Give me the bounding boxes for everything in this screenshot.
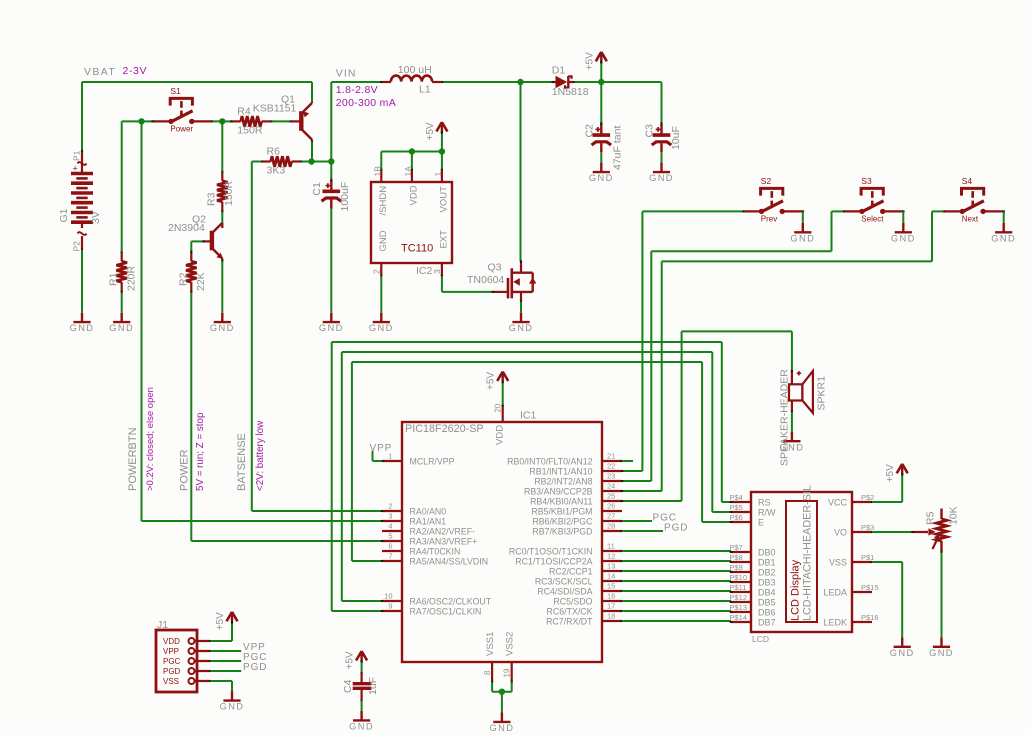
ground GND battery: [73, 321, 90, 323]
svg-text:C4: C4: [342, 679, 354, 693]
svg-text:2-3V: 2-3V: [123, 65, 148, 77]
IC1 pin 16 RC5/SDO: [602, 600, 622, 602]
svg-text:GND: GND: [509, 323, 534, 333]
wire VCC to +5V: [872, 501, 902, 503]
svg-text:>0.2V: closed; else open: >0.2V: closed; else open: [145, 387, 156, 491]
svg-text:2: 2: [371, 269, 381, 274]
LCD pin P$7 DB0: [731, 551, 751, 553]
svg-text:S2: S2: [761, 176, 772, 186]
svg-text:P2: P2: [72, 241, 82, 252]
svg-text:5: 5: [388, 531, 392, 540]
svg-text:200-300 mA: 200-300 mA: [336, 97, 396, 109]
svg-text:TC110: TC110: [401, 243, 433, 255]
svg-text:GND: GND: [109, 323, 134, 333]
junction node VSS: [499, 689, 505, 695]
svg-text:11: 11: [607, 541, 615, 550]
svg-text:150R: 150R: [223, 180, 235, 206]
svg-text:L1: L1: [419, 84, 431, 96]
svg-text:VPP: VPP: [163, 647, 179, 656]
IC1 pin 27 RB6/KBI2/PGC: [602, 520, 622, 522]
wire VSS to GND: [501, 692, 503, 713]
IC1 pin 10 RA6/OSC2/CLKOUT: [382, 600, 402, 602]
transistor Q2 2N3904: [210, 231, 214, 251]
svg-text:R6: R6: [267, 146, 281, 158]
svg-text:22K: 22K: [195, 272, 207, 291]
junction node 1A: [409, 148, 415, 154]
svg-text:VPP: VPP: [370, 443, 393, 454]
LCD pin P$6 E: [731, 521, 751, 523]
svg-text:15: 15: [607, 581, 615, 590]
svg-text:RC6/TX/CK: RC6/TX/CK: [547, 607, 593, 617]
wire RA6-RW bus: [342, 600, 382, 602]
switch S2 Prev: [761, 188, 783, 195]
svg-text:1uF: 1uF: [367, 677, 379, 695]
IC1 pin 2 RA0/AN0: [382, 510, 402, 512]
svg-text:220R: 220R: [126, 265, 138, 291]
ground GND J1: [223, 699, 240, 701]
svg-text:RC5/SDO: RC5/SDO: [553, 597, 592, 607]
resistor R6: [261, 160, 270, 162]
wire J1 PGC: [210, 660, 241, 662]
svg-text:S1: S1: [170, 86, 181, 96]
inductor L1 100uH: [381, 81, 391, 83]
ground GND C2: [593, 171, 610, 173]
ground GND LCD VSS: [894, 646, 911, 648]
svg-text:P$16: P$16: [861, 613, 879, 622]
svg-text:RC2/CCP1: RC2/CCP1: [549, 567, 593, 577]
IC2 pin 3 stub: [441, 263, 443, 276]
svg-text:BATSENSE: BATSENSE: [236, 433, 248, 491]
IC2 TC110 box: [371, 182, 452, 263]
svg-text:1.8-2.8V: 1.8-2.8V: [336, 84, 378, 96]
LCD pin P$11 DB4: [731, 591, 751, 593]
IC1 pin 4 RA2/AN2/VREF-: [382, 530, 402, 532]
LCD pin P$4 RS: [731, 501, 751, 503]
wire Q2 emitter to GND: [221, 261, 223, 312]
svg-text:P$12: P$12: [730, 593, 748, 602]
svg-text:PIC18F2620-SP: PIC18F2620-SP: [405, 423, 484, 435]
svg-text:RB4/KBI0/AN11: RB4/KBI0/AN11: [530, 497, 593, 507]
svg-text:2N3904: 2N3904: [168, 222, 205, 234]
wires RC0-RC7 to LCD: [622, 550, 731, 552]
svg-text:C3: C3: [644, 124, 656, 138]
svg-text:RB3/AN9/CCP2B: RB3/AN9/CCP2B: [524, 487, 593, 497]
wire speaker to GND: [791, 412, 793, 432]
svg-text:28: 28: [607, 521, 615, 530]
wire L1 to D1: [443, 81, 553, 83]
svg-text:PGC: PGC: [163, 657, 181, 666]
svg-text:RC1/T1OSI/CCP2A: RC1/T1OSI/CCP2A: [515, 557, 592, 567]
svg-text:VSS: VSS: [163, 677, 179, 686]
ground GND C1: [323, 321, 340, 323]
svg-text:Prev: Prev: [761, 215, 777, 224]
IC1 pin 6 RA4/T0CKIN: [382, 550, 402, 552]
ground GND IC2: [373, 321, 390, 323]
LCD display box: [751, 492, 852, 632]
wire 5V to C3: [601, 81, 661, 83]
junction node C1-VIN: [328, 158, 334, 164]
svg-text:RA4/T0CKIN: RA4/T0CKIN: [410, 547, 461, 557]
svg-text:18: 18: [607, 611, 615, 620]
svg-text:C2: C2: [583, 124, 595, 138]
svg-text:P$7: P$7: [730, 543, 743, 552]
ground GND R1: [113, 321, 130, 323]
wire D1 to +5V node: [575, 81, 602, 83]
switch S1 Power: [170, 98, 192, 105]
svg-text:P$1: P$1: [861, 553, 874, 562]
wire J1 VSS to GND: [210, 680, 232, 682]
wire S4 to GND: [1003, 211, 1005, 222]
wire R1 top to switch net: [121, 121, 123, 252]
svg-text:RB6/KBI2/PGC: RB6/KBI2/PGC: [532, 517, 593, 527]
wire TC110 top rail: [380, 152, 382, 170]
LCD inner box: [786, 501, 817, 622]
wire R6 right to VIN node: [302, 161, 332, 163]
wire R5 to GND: [941, 553, 943, 638]
svg-text:25: 25: [607, 491, 615, 500]
svg-text:+5V: +5V: [584, 52, 595, 70]
svg-text:GND: GND: [890, 648, 915, 658]
connector J1 box: [156, 630, 197, 692]
speaker header SPKR1: [791, 331, 793, 371]
svg-text:R2: R2: [177, 272, 189, 286]
svg-text:24: 24: [607, 481, 615, 490]
svg-text:23: 23: [607, 471, 615, 480]
wire C4 to GND: [361, 701, 363, 711]
capacitor C2 47uF: [600, 82, 602, 124]
wire RA7-RS bus: [332, 610, 382, 612]
svg-text:150R: 150R: [237, 124, 263, 136]
LCD pin P$15 LEDA: [852, 591, 872, 593]
svg-text:RA1/AN1: RA1/AN1: [410, 517, 447, 527]
wire POWER to pin5: [191, 540, 382, 542]
svg-text:3: 3: [432, 269, 442, 274]
wire S2 left net: [642, 210, 742, 212]
svg-text:PGD: PGD: [664, 523, 688, 534]
svg-text:21: 21: [607, 451, 615, 460]
ground GND Q3: [512, 321, 529, 323]
svg-text:P$10: P$10: [730, 573, 748, 582]
junction node Q1-R6: [308, 158, 314, 164]
svg-text:1: 1: [433, 172, 443, 177]
svg-text:RA2/AN2/VREF-: RA2/AN2/VREF-: [410, 527, 476, 537]
svg-text:RA0/AN0: RA0/AN0: [410, 507, 447, 517]
svg-text:19: 19: [503, 668, 512, 677]
svg-text:Select: Select: [861, 215, 884, 224]
svg-text:100 uH: 100 uH: [398, 64, 432, 76]
wire Q2 base to R2: [191, 240, 203, 242]
wire S3 left net: [832, 210, 844, 212]
svg-text:RB5/KBI1/PGM: RB5/KBI1/PGM: [531, 507, 592, 517]
svg-text:LCD: LCD: [752, 634, 769, 644]
LCD pin P$1 VSS: [852, 561, 872, 563]
supply +5V VDD: [502, 382, 504, 405]
svg-text:GND: GND: [210, 323, 235, 333]
svg-text:P$13: P$13: [730, 603, 748, 612]
IC1 pin 7 RA5/AN4/SS/LVDIN: [382, 560, 402, 562]
wire pin27 PGC: [622, 520, 652, 522]
IC1 pin 12 RC1/T1OSI/CCP2A: [602, 560, 622, 562]
svg-text:RC4/SDI/SDA: RC4/SDI/SDA: [537, 587, 592, 597]
svg-text:GND: GND: [220, 702, 245, 712]
svg-text:RC7/RX/DT: RC7/RX/DT: [546, 617, 593, 627]
wire net to pin25: [622, 500, 682, 502]
switch S4 Next: [962, 188, 984, 195]
capacitor C3 10uF: [661, 82, 663, 124]
junction node pin1: [439, 148, 445, 154]
wire Q3 source to GND: [520, 302, 522, 313]
svg-text:4: 4: [388, 521, 392, 530]
IC2 pin 2 stub: [380, 263, 382, 276]
svg-text:VIN: VIN: [336, 67, 357, 79]
svg-text:J1: J1: [157, 619, 168, 631]
svg-text:DB6: DB6: [758, 607, 776, 617]
svg-text:+5V: +5V: [885, 464, 896, 482]
svg-text:RC3/SCK/SCL: RC3/SCK/SCL: [535, 577, 593, 587]
wire junction to R3: [221, 121, 223, 171]
svg-text:P$11: P$11: [730, 583, 747, 592]
svg-text:LCD Display: LCD Display: [790, 559, 802, 621]
IC1 pin 1 MCLR/VPP: [382, 460, 402, 462]
svg-text:P$5: P$5: [730, 503, 743, 512]
svg-text:GND: GND: [649, 173, 674, 183]
svg-text:RB1/INT1/AN10: RB1/INT1/AN10: [529, 467, 592, 477]
wire pin28 PGD: [622, 530, 663, 532]
svg-text:DB2: DB2: [758, 567, 776, 577]
svg-text:IC1: IC1: [520, 409, 537, 421]
svg-text:2: 2: [388, 501, 392, 510]
transistor Q1 KSB1151: [299, 111, 303, 131]
svg-text:C1: C1: [311, 182, 323, 196]
svg-text:+5V: +5V: [486, 372, 497, 390]
svg-text:P$9: P$9: [730, 563, 743, 572]
IC2 pin 1 stub: [441, 169, 443, 182]
svg-text:DB3: DB3: [758, 577, 776, 587]
IC1 pin 18 RC7/RX/DT: [602, 620, 622, 622]
resistor R1: [121, 252, 123, 261]
svg-text:GND: GND: [70, 323, 95, 333]
svg-text:RB7/KBI3/PGD: RB7/KBI3/PGD: [532, 527, 592, 537]
svg-text:TN0604: TN0604: [467, 274, 505, 286]
wire VO to R5: [872, 531, 913, 533]
IC1 pin 22 RB1/INT1/AN10: [602, 470, 622, 472]
svg-text:VSS: VSS: [829, 557, 847, 567]
IC1 pin 17 RC6/TX/CK: [602, 610, 622, 612]
wire Q1 collector to VIN node: [311, 142, 313, 162]
svg-text:9: 9: [388, 601, 392, 610]
svg-text:DB0: DB0: [758, 547, 776, 557]
svg-text:P$8: P$8: [730, 553, 743, 562]
svg-text:P$4: P$4: [730, 493, 743, 502]
svg-text:R3: R3: [205, 192, 217, 206]
svg-text:GND: GND: [991, 233, 1016, 243]
supply +5V LCD: [901, 464, 903, 475]
svg-text:DB4: DB4: [758, 587, 776, 597]
IC1 pin 24 RB3/AN9/CCP2B: [602, 490, 622, 492]
svg-text:G1: G1: [58, 208, 70, 222]
svg-text:Next: Next: [962, 215, 979, 224]
ground GND S4: [995, 231, 1012, 233]
svg-text:12: 12: [607, 551, 615, 560]
svg-text:S4: S4: [962, 176, 973, 186]
svg-text:VDD: VDD: [163, 637, 180, 646]
svg-text:RA7/OSC1/CLKIN: RA7/OSC1/CLKIN: [410, 607, 482, 617]
svg-text:RA6/OSC2/CLKOUT: RA6/OSC2/CLKOUT: [410, 597, 492, 607]
svg-text:EXT: EXT: [438, 230, 449, 249]
ground GND C3: [653, 171, 670, 173]
svg-text:VO: VO: [834, 527, 847, 537]
svg-text:VDD: VDD: [408, 185, 419, 205]
wire RA5-E bus: [352, 560, 382, 562]
svg-text:10K: 10K: [948, 506, 960, 525]
supply +5V C4: [360, 651, 362, 662]
capacitor C4 1uF: [361, 662, 363, 674]
IC1 pin 15 RC4/SDI/SDA: [602, 590, 622, 592]
wire POWERBTN vertical: [141, 121, 143, 521]
IC1 pin 5 RA3/AN3/VREF+: [382, 540, 402, 542]
wire R4 to Q1 base: [272, 120, 291, 122]
IC1 pin 21 RB0/INT0/FLT0/AN12: [602, 460, 622, 462]
ground GND R5: [933, 646, 950, 648]
svg-text:KSB1151: KSB1151: [253, 103, 297, 115]
ground GND VSS: [493, 721, 510, 723]
ground GND speaker: [783, 440, 800, 442]
svg-text:13: 13: [607, 561, 615, 570]
resistor R2: [190, 252, 192, 261]
svg-text:GND: GND: [378, 230, 389, 251]
junction node 5V: [598, 79, 604, 85]
wire POWER vertical: [190, 292, 192, 541]
wire R6 left to BATSENSE: [252, 161, 261, 163]
svg-text:RB0/INT0/FLT0/AN12: RB0/INT0/FLT0/AN12: [507, 457, 592, 467]
svg-text:47uF tant: 47uF tant: [612, 126, 624, 170]
wire VSS join: [491, 682, 493, 692]
svg-text:GND: GND: [349, 722, 374, 732]
svg-text:100uF: 100uF: [339, 182, 351, 212]
svg-text:1N5818: 1N5818: [552, 86, 589, 98]
LCD pin P$13 DB6: [731, 611, 751, 613]
svg-text:3V: 3V: [90, 211, 102, 224]
svg-text:8: 8: [483, 670, 492, 675]
svg-text:GND: GND: [589, 173, 614, 183]
LCD pin P$5 R/W: [731, 511, 751, 513]
svg-text:22: 22: [607, 461, 615, 470]
wire VIN vertical: [330, 82, 332, 162]
switch S3 Select: [861, 188, 883, 195]
svg-text:VCC: VCC: [828, 497, 848, 507]
svg-text:R4: R4: [237, 106, 251, 118]
wire S4 left net: [932, 210, 943, 212]
svg-text:Q3: Q3: [488, 261, 502, 273]
svg-text:3: 3: [388, 511, 392, 520]
wire VBAT to Q1 emitter: [311, 82, 313, 102]
svg-text:14: 14: [607, 571, 615, 580]
svg-text:GND: GND: [891, 233, 916, 243]
svg-text:E: E: [758, 517, 764, 527]
wire J1 VDD to +5V: [210, 640, 232, 642]
svg-text:R/W: R/W: [758, 507, 776, 517]
svg-text:P$2: P$2: [861, 493, 874, 502]
svg-text:5V = run; Z = stop: 5V = run; Z = stop: [195, 412, 206, 491]
wire net to pin23: [622, 480, 651, 482]
svg-text:MCLR/VPP: MCLR/VPP: [410, 457, 455, 467]
wire net to pin22: [622, 470, 642, 472]
wire S1 right to junction: [212, 120, 231, 122]
ground GND S3: [895, 231, 912, 233]
svg-text:VBAT: VBAT: [84, 66, 116, 78]
resistor R4: [231, 120, 240, 122]
svg-text:10: 10: [384, 591, 392, 600]
LCD pin P$12 DB5: [731, 601, 751, 603]
wire J1 PGD: [210, 670, 241, 672]
svg-text:GND: GND: [790, 233, 815, 243]
wire pin2 to GND: [380, 276, 382, 312]
svg-text:Power: Power: [170, 125, 193, 134]
transistor Q3 TN0604: [493, 291, 508, 293]
svg-text:+5V: +5V: [345, 651, 356, 669]
svg-text:P$3: P$3: [861, 523, 874, 532]
LCD pin P$10 DB3: [731, 581, 751, 583]
svg-text:DB1: DB1: [758, 557, 776, 567]
wire POWERBTN to pin3: [142, 520, 383, 522]
IC1 VSS2 pin 19: [511, 662, 513, 682]
IC1 PIC18F2620 box: [402, 422, 602, 662]
IC1 pin 25 RB4/KBI0/AN11: [602, 500, 622, 502]
IC2 pin 1A stub: [411, 169, 413, 182]
IC1 pin 3 RA1/AN1: [382, 520, 402, 522]
svg-text:+5V: +5V: [215, 612, 226, 630]
LCD pin P$9 DB2: [731, 571, 751, 573]
supply +5V main: [600, 62, 602, 82]
IC1 pin 9 RA7/OSC1/CLKIN: [382, 610, 402, 612]
wire VBAT horizontal: [82, 81, 312, 83]
IC1 pin 11 RC0/T1OSO/T1CKIN: [602, 550, 622, 552]
diode D1 1N5818: [553, 81, 556, 83]
wire battery to GND: [81, 250, 83, 312]
svg-text:GND: GND: [929, 648, 954, 658]
wire VBAT to battery: [81, 82, 83, 151]
svg-text:/SHDN: /SHDN: [378, 186, 389, 216]
svg-text:R5: R5: [925, 511, 937, 525]
svg-text:LCD-HITACHI-HEADER-SIL: LCD-HITACHI-HEADER-SIL: [802, 485, 814, 621]
svg-text:VSS1: VSS1: [485, 632, 496, 656]
svg-text:DB5: DB5: [758, 597, 776, 607]
LCD pin P$16 LEDK: [852, 621, 872, 623]
svg-text:+5V: +5V: [425, 122, 436, 140]
svg-text:VSS2: VSS2: [504, 632, 515, 656]
wire S3 to GND: [902, 211, 904, 222]
svg-text:D1: D1: [552, 65, 566, 77]
LCD pin P$3 VO: [852, 531, 872, 533]
svg-text:GND: GND: [489, 723, 514, 733]
ground GND C4: [353, 719, 370, 721]
junction node switch-right: [219, 118, 225, 124]
svg-text:RS: RS: [758, 497, 771, 507]
IC1 pin1 VPP wire: [372, 451, 374, 461]
wire C2 to GND: [600, 152, 602, 162]
svg-text:RA5/AN4/SS/LVDIN: RA5/AN4/SS/LVDIN: [410, 557, 489, 567]
wire BATSENSE to pin2: [252, 510, 382, 512]
IC1 pin 13 RC2/CCP1: [602, 570, 622, 572]
wire EXT to Q3 gate: [441, 276, 443, 292]
wire S2 to GND: [802, 211, 804, 222]
svg-text:S3: S3: [861, 176, 872, 186]
IC1 pin 26 RB5/KBI1/PGM: [602, 510, 622, 512]
IC1 VDD pin 20: [502, 405, 504, 422]
svg-text:DB7: DB7: [758, 617, 776, 627]
junction node Q3 drain tap: [517, 79, 523, 85]
wire J1 VPP: [210, 650, 241, 652]
